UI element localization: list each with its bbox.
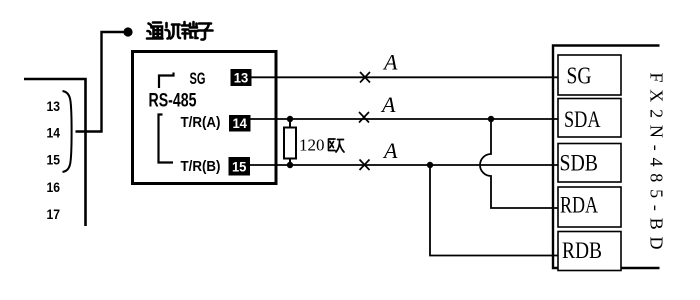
- svg-text:A: A: [382, 138, 398, 163]
- svg-text:14: 14: [47, 126, 61, 142]
- label 通讯端子 (drawn glyphs): [147, 22, 213, 40]
- cut mark X on T/R(A) line: [359, 112, 369, 123]
- junction node on T/R(B) line: [427, 162, 433, 168]
- svg-text:13: 13: [47, 99, 61, 115]
- svg-text:SG: SG: [190, 70, 206, 88]
- terminal box SDA: [558, 99, 621, 138]
- RS-485 lower bracket grouping T/R(A) and T/R(B): [159, 115, 174, 163]
- 讯: [166, 23, 181, 39]
- svg-text:15: 15: [232, 159, 247, 175]
- label 120欧: [299, 136, 344, 155]
- svg-text:120: 120: [299, 136, 325, 155]
- cut mark X on T/R(B) line: [360, 160, 370, 171]
- svg-text:17: 17: [47, 207, 61, 223]
- terminal block 13: [231, 69, 252, 86]
- svg-text:SG: SG: [567, 64, 592, 90]
- 通: [147, 23, 163, 39]
- node bullet at communication terminal label: [123, 27, 132, 36]
- svg-text:14: 14: [232, 115, 247, 131]
- svg-text:16: 16: [47, 180, 61, 196]
- wire T/R(A) line: [251, 118, 559, 120]
- 欧 glyph: [329, 139, 345, 152]
- svg-text:RDA: RDA: [560, 193, 598, 218]
- svg-text:RDB: RDB: [562, 238, 602, 263]
- junction node on T/R(A) line: [488, 116, 494, 122]
- terminal box RDA: [558, 187, 621, 227]
- PLC terminal strip partial outline: [24, 79, 86, 226]
- terminal box SDB: [558, 144, 621, 183]
- resistor 120 ohm: [284, 116, 296, 168]
- wire SG line: [252, 76, 559, 78]
- svg-text:15: 15: [47, 153, 61, 169]
- svg-text:A: A: [380, 92, 396, 117]
- 端: [182, 22, 198, 39]
- wire from bullet down to brace: [76, 32, 125, 132]
- wire from T/R(B) junction down to RDB: [430, 165, 558, 256]
- terminal block 15: [229, 157, 251, 176]
- svg-text:A: A: [382, 50, 398, 75]
- terminal box SG: [558, 55, 621, 95]
- svg-text:T/R(A): T/R(A): [181, 115, 221, 131]
- svg-text:FX2N-485-BD: FX2N-485-BD: [647, 73, 667, 257]
- terminal block 14: [229, 115, 251, 132]
- terminal box RDB: [558, 232, 621, 271]
- svg-text:SDA: SDA: [564, 107, 601, 132]
- svg-text:T/R(B): T/R(B): [181, 159, 221, 175]
- communication terminal box: [133, 52, 277, 184]
- brace grouping terminals 13-15: [63, 91, 72, 172]
- FX2N-485-BD module outline (open right side): [553, 46, 660, 269]
- cut mark X on SG line: [360, 72, 370, 83]
- svg-text:13: 13: [234, 70, 249, 86]
- wire T/R(B) line: [250, 164, 558, 166]
- 子: [198, 24, 213, 40]
- wire from T/R(A) junction down (hop over T/R(B) line) to RDA: [480, 119, 558, 208]
- svg-text:SDB: SDB: [560, 151, 599, 176]
- RS-485 upper bracket toward SG: [159, 73, 174, 89]
- svg-text:RS-485: RS-485: [149, 91, 197, 112]
